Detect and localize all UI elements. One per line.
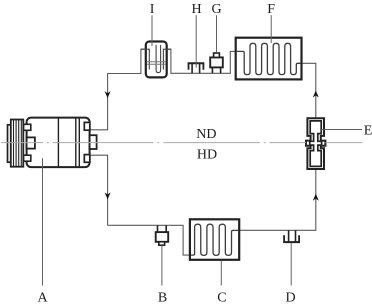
svg-text:ND: ND [196,127,216,142]
compressor A top-right tab [84,122,90,130]
leader line label F [270,15,272,43]
centerline ND/HD axis left segment [1,142,306,144]
wire compressor discharge to receiver (top left pipe) [90,49,147,130]
centerline ND/HD axis right segment [325,142,362,144]
receiver drier I desiccant level lines [147,62,166,65]
compressor A bottom-right tab [84,155,90,163]
fitting H inner prongs [192,64,200,74]
service valve G cap [214,53,220,57]
evaporator C serpentine coil [191,224,238,255]
svg-text:C: C [217,290,226,305]
compressor A body [27,118,90,168]
flow arrow up (right vertical below E) [313,194,319,201]
svg-text:F: F [267,2,275,17]
receiver drier I shell [146,42,167,78]
svg-text:D: D [285,290,295,305]
expansion device E inner profile [310,121,322,166]
compressor A left port box [27,137,35,148]
leader line label A [42,158,44,285]
compressor A pulley end plate [8,125,11,162]
evaporator C shell [190,219,239,259]
wire bottom pipe into evaporator C left [108,225,191,255]
valve B body [156,232,169,242]
receiver drier I pickup U-tube [156,45,161,73]
fitting D inner prongs [289,230,296,242]
receiver drier I outlet dip tube [163,49,171,69]
compressor A bottom-left tab [24,155,31,161]
wire receiver to condenser F (top right pipe) [166,49,236,73]
fitting H outer prongs [189,64,204,70]
svg-text:A: A [38,290,49,305]
valve B stem legs [158,225,167,232]
svg-text:I: I [150,2,155,17]
condenser F serpentine coil [237,43,301,74]
fitting H crossbar [188,62,205,64]
flow arrow up (right vertical above E) [313,91,319,98]
fitting D outer prongs [284,235,299,242]
wire condenser F to expansion device E (right vertical upper) [301,63,316,119]
leader line label G [216,15,218,53]
flow arrow down (lower left vertical) [105,192,111,199]
svg-text:G: G [212,2,222,17]
svg-text:H: H [191,2,201,17]
wire E interior stub [315,119,317,127]
fitting D crossbar [283,241,300,243]
condenser F shell [236,38,302,80]
leader line label B [161,246,163,286]
wire compressor suction (lower left pipe) [90,155,108,225]
valve B cap [159,242,165,245]
wire E to bottom pipe (right vertical lower) [238,166,315,230]
compressor A ribbed clutch block [11,120,23,167]
flow arrow down (upper left vertical) [105,91,111,98]
leader line label D [290,243,292,285]
service valve G body [210,57,223,67]
leader line label E [320,129,362,131]
compressor A top-left tab [24,124,31,130]
leader line label H [195,15,197,67]
service valve G stem legs [212,66,220,73]
svg-text:E: E [364,124,372,139]
compressor A right port box [90,135,97,149]
svg-text:B: B [158,290,167,305]
leader line label I [151,15,153,46]
leader line label C [220,261,222,286]
expansion device E outer profile [306,118,325,169]
compressor A body section lines [58,118,79,168]
receiver drier I inlet dip tube [141,49,149,69]
svg-text:HD: HD [197,147,217,162]
